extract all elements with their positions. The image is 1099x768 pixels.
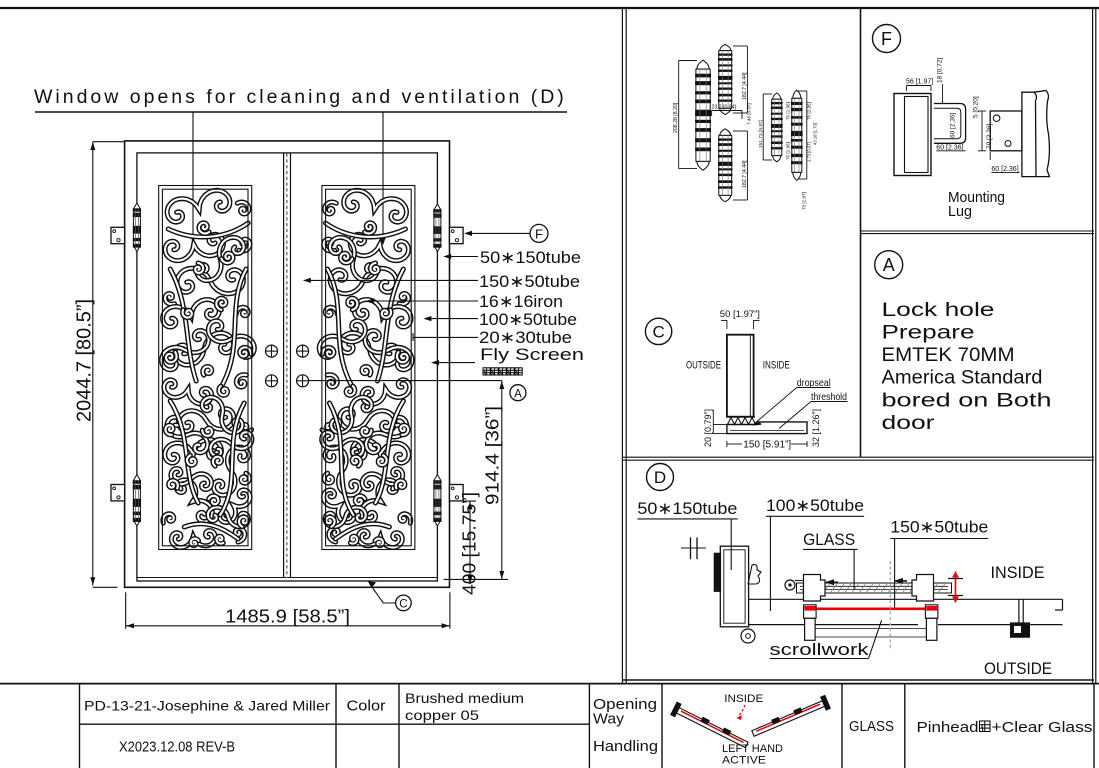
- left dimension 2044.7: [92, 142, 94, 586]
- red clamp block left: [804, 605, 817, 619]
- svg-text:Window opens for cleaning and: Window opens for cleaning and ventilatio…: [34, 86, 567, 108]
- svg-text:150∗50tube: 150∗50tube: [890, 519, 988, 537]
- svg-text:60 [2.36]: 60 [2.36]: [950, 113, 957, 138]
- svg-text:F: F: [535, 227, 543, 242]
- anchor plate hatched: [714, 553, 721, 592]
- divider F/A panels: [861, 230, 1095, 232]
- threshold body: [727, 422, 807, 434]
- svg-text:GLASS: GLASS: [803, 530, 855, 549]
- red scroll bar line: [806, 607, 936, 610]
- svg-text:100∗50tube: 100∗50tube: [766, 497, 864, 515]
- svg-text:50 [1.97”]: 50 [1.97”]: [720, 309, 760, 320]
- dashed centerline: [889, 561, 891, 651]
- svg-text:5 [0.20]: 5 [0.20]: [973, 96, 980, 118]
- pivot hinge circle left of glass: [785, 580, 795, 590]
- right section left border: [621, 8, 623, 683]
- svg-text:GLASS: GLASS: [849, 718, 894, 735]
- svg-text:75 [2.95]: 75 [2.95]: [786, 142, 791, 160]
- svg-text:copper 05: copper 05: [405, 708, 479, 723]
- glass clamp right: [912, 575, 934, 602]
- svg-text:23.2 [0.94]: 23.2 [0.94]: [712, 105, 737, 111]
- C label circle + leader at door bottom: [369, 583, 395, 603]
- A panel circle: [875, 251, 903, 279]
- mounting lug tube section: [894, 94, 931, 176]
- svg-text:43.18 [1.70]: 43.18 [1.70]: [813, 123, 818, 145]
- svg-text:73 [2.87]: 73 [2.87]: [802, 192, 807, 210]
- left jamb tube: [720, 546, 748, 627]
- svg-text:60 [2.36]: 60 [2.36]: [936, 144, 963, 151]
- header underline: [35, 111, 567, 113]
- strike plate lower-left: [111, 485, 125, 501]
- svg-text:Lock hole: Lock hole: [882, 300, 995, 321]
- svg-text:18 [0.72]: 18 [0.72]: [937, 58, 944, 83]
- D panel circle: [647, 464, 674, 491]
- svg-text:16∗16iron: 16∗16iron: [479, 293, 563, 311]
- scroll bars between posts: [815, 628, 926, 630]
- svg-text:X2023.12.08 REV-B: X2023.12.08 REV-B: [119, 740, 235, 756]
- door tube broken section: [1022, 91, 1050, 177]
- top rail lines: [749, 598, 1063, 600]
- label 16*16iron: [369, 300, 478, 302]
- svg-text:PD-13-21-Josephine & Jared Mil: PD-13-21-Josephine & Jared Miller: [84, 699, 331, 714]
- svg-text:Color: Color: [347, 699, 386, 715]
- D panel bottom border: [623, 679, 1094, 681]
- svg-text:D: D: [654, 468, 666, 487]
- leader to left door window: [192, 112, 194, 240]
- svg-text:Handling: Handling: [593, 738, 658, 755]
- black arrow right: [895, 580, 907, 582]
- svg-text:threshold: threshold: [811, 391, 847, 403]
- svg-text:C: C: [652, 323, 664, 342]
- strike plate lower-right: [450, 485, 464, 501]
- door tube section: [727, 335, 754, 417]
- title block top line: [0, 683, 1099, 685]
- svg-text:182.7 [4.44]: 182.7 [4.44]: [742, 160, 748, 188]
- handling diagram left door: [670, 702, 750, 752]
- label 20*30tube: [413, 336, 478, 338]
- svg-text:INSIDE: INSIDE: [991, 564, 1045, 582]
- title block row divider: [80, 723, 590, 725]
- svg-text:door: door: [882, 413, 936, 434]
- leader to right door window: [382, 112, 384, 242]
- svg-text:7.48 [0.37]: 7.48 [0.37]: [747, 103, 752, 125]
- svg-text:A: A: [514, 388, 522, 400]
- right section right border: [1092, 8, 1094, 683]
- C panel circle: [645, 318, 671, 344]
- strike plate upper-left: [111, 227, 125, 243]
- door hinge bottom-right: [433, 475, 441, 527]
- svg-text:ACTIVE: ACTIVE: [722, 755, 766, 767]
- door inner frame: [137, 153, 438, 581]
- dim 150 [5.91"]: [726, 441, 728, 447]
- svg-text:C: C: [399, 599, 407, 611]
- svg-text:50∗150tube: 50∗150tube: [637, 500, 737, 518]
- left leaf meeting stile: [283, 153, 285, 578]
- label 100*50tube: [427, 318, 479, 320]
- glass strip: [797, 583, 952, 593]
- right dimension 400: [469, 501, 471, 584]
- label 150*50tube: [306, 279, 478, 281]
- svg-text:50∗150tube: 50∗150tube: [480, 249, 581, 267]
- right dimension 914.4: [501, 381, 503, 580]
- lug plate with holes: [990, 111, 1022, 151]
- svg-text:EMTEK 70MM: EMTEK 70MM: [882, 345, 1015, 366]
- A reference line from handle: [308, 380, 502, 382]
- svg-text:75 [2.95]: 75 [2.95]: [807, 102, 812, 120]
- glass clamp left: [804, 575, 826, 602]
- center dashed line: [286, 154, 288, 579]
- right leaf meeting stile: [290, 153, 292, 578]
- door outer frame: [125, 141, 450, 587]
- right scroll panel (mirrored): [319, 186, 415, 550]
- svg-text:1.73 [0.07]: 1.73 [0.07]: [807, 142, 812, 162]
- red clamp block right: [925, 605, 938, 619]
- svg-text:32 [1.26”]: 32 [1.26”]: [811, 409, 821, 447]
- svg-text:Brushed medium: Brushed medium: [405, 691, 524, 706]
- F label circle leader: [466, 232, 530, 234]
- svg-text:400 [15.75”]: 400 [15.75”]: [460, 492, 480, 595]
- red vertical indicator: [955, 572, 957, 603]
- svg-text:150 [5.91”]: 150 [5.91”]: [743, 440, 791, 451]
- door hinge top-right: [433, 204, 441, 252]
- svg-text:INSIDE: INSIDE: [724, 693, 763, 705]
- divider hinge/F panels: [860, 8, 862, 457]
- door handles (cross circles): [266, 345, 278, 357]
- dropseal zigzag: [728, 418, 756, 425]
- left scroll panel: [159, 186, 255, 550]
- F panel circle: [873, 25, 901, 53]
- A label circle: [510, 385, 526, 401]
- svg-text:Pinhead: Pinhead: [917, 719, 979, 736]
- fly screen chinese caption: [483, 368, 490, 375]
- svg-text:Prepare: Prepare: [882, 323, 975, 344]
- svg-text:56 [1.97]: 56 [1.97]: [906, 79, 933, 86]
- svg-text:Fly Screen: Fly Screen: [480, 346, 584, 364]
- border frame top: [0, 7, 1099, 9]
- svg-text:70 [2.26]: 70 [2.26]: [986, 124, 993, 149]
- svg-text:F: F: [881, 29, 892, 49]
- clamp lower posts: [805, 618, 816, 640]
- svg-text:INSIDE: INSIDE: [763, 360, 790, 372]
- svg-text:scrollwork: scrollwork: [770, 640, 870, 659]
- svg-text:208.28 [8.20]: 208.28 [8.20]: [673, 102, 679, 133]
- hinge detail cluster: [673, 44, 818, 210]
- svg-text:Way: Way: [593, 711, 625, 728]
- svg-text:OUTSIDE: OUTSIDE: [686, 360, 721, 372]
- wall keeper right: [1018, 599, 1020, 627]
- svg-text:60 [2.36]: 60 [2.36]: [991, 166, 1018, 173]
- divider above D panel: [622, 456, 1094, 458]
- svg-text:1485.9 [58.5”]: 1485.9 [58.5”]: [225, 606, 350, 627]
- wall anchor symbol: [690, 537, 692, 559]
- svg-text:OUTSIDE: OUTSIDE: [984, 660, 1052, 678]
- svg-text:20∗30tube: 20∗30tube: [479, 329, 572, 347]
- strike plate upper-right: [450, 227, 464, 243]
- door hinge bottom-left: [133, 475, 141, 527]
- svg-text:LEFT HAND: LEFT HAND: [722, 743, 783, 755]
- svg-text:Lug: Lug: [948, 204, 972, 220]
- svg-text:America Standard: America Standard: [882, 368, 1043, 389]
- dim 70 vertical: [981, 111, 983, 151]
- bottom dimension 1485.9: [125, 592, 127, 628]
- svg-text:150∗50tube: 150∗50tube: [479, 273, 580, 291]
- black arrow left: [826, 581, 838, 583]
- svg-text:2044.7 [80.5”]: 2044.7 [80.5”]: [73, 299, 96, 422]
- svg-text:75 [2.95]: 75 [2.95]: [786, 102, 791, 120]
- red dashed pointer: [738, 705, 745, 716]
- svg-text:20 [0.79”]: 20 [0.79”]: [703, 409, 713, 447]
- door leaf edge piece: [748, 565, 761, 584]
- svg-text:151.73 [5.97]: 151.73 [5.97]: [758, 120, 764, 148]
- door hinge top-left: [133, 203, 141, 252]
- title block columns: [79, 684, 81, 768]
- svg-text:A: A: [883, 255, 895, 275]
- mounting lug bracket: [934, 104, 966, 144]
- door leaf bottom line: [137, 577, 438, 579]
- svg-text:bored on Both: bored on Both: [882, 390, 1052, 411]
- svg-text:+Clear Glass: +Clear Glass: [992, 719, 1093, 736]
- svg-text:182.7 [4.44]: 182.7 [4.44]: [742, 72, 748, 100]
- svg-text:100∗50tube: 100∗50tube: [479, 311, 577, 329]
- svg-text:914.4 [36”]: 914.4 [36”]: [483, 406, 503, 505]
- handling diagram right door: [750, 695, 831, 741]
- label 50*150tube: [447, 256, 479, 258]
- pivot circle below jamb: [741, 629, 755, 643]
